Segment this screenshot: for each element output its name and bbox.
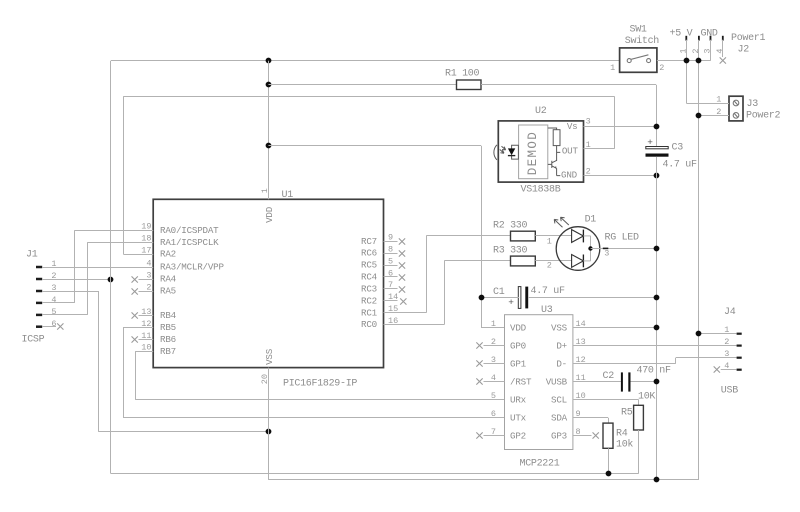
svg-text:RC2: RC2 [361, 295, 377, 306]
svg-text:SW1: SW1 [630, 25, 647, 36]
J4 pin 4 no-connect x [714, 366, 720, 372]
resistor R5 body [634, 405, 644, 430]
svg-text:VSS: VSS [551, 322, 568, 333]
svg-text:+: + [647, 137, 653, 148]
svg-text:RB5: RB5 [160, 322, 176, 333]
svg-text:4: 4 [51, 295, 56, 305]
svg-text:1: 1 [610, 63, 615, 73]
wire J1 pin3 down GND [98, 291, 100, 432]
wire GND bottom rail [269, 479, 699, 481]
svg-text:DEMOD: DEMOD [526, 131, 540, 176]
J1 pin 6 no-connect x [57, 323, 63, 329]
svg-text:GP2: GP2 [510, 430, 526, 441]
junction VDD R1 branch [266, 82, 272, 88]
U1 pin 11 no-connect x [132, 336, 138, 342]
wire ICSPCLK vertical [87, 242, 89, 315]
svg-text:R4: R4 [616, 429, 628, 440]
J2 pin 4 no-connect x [720, 57, 726, 63]
svg-text:VDD: VDD [264, 206, 275, 223]
switch SW1 body [620, 48, 657, 72]
svg-text:3: 3 [604, 249, 609, 259]
junction Vs [654, 124, 660, 130]
svg-text:2: 2 [146, 282, 151, 292]
svg-text:Power2: Power2 [746, 110, 781, 121]
wire J1 pin2 to VDD rail [42, 279, 111, 281]
J1 pin 6 tick [36, 325, 42, 328]
D1 diode 1 cathode bar [582, 230, 584, 243]
ic U3 MCP2221 body [505, 315, 573, 450]
D1 diode 2 cathode bar [582, 255, 584, 268]
wire R3 to D1 anode2 [535, 260, 571, 262]
wire to R3 [444, 260, 510, 262]
ic U2 VS1838B body [498, 121, 583, 182]
U2 demod block [519, 125, 548, 179]
svg-text:1: 1 [716, 94, 721, 104]
svg-text:4: 4 [715, 48, 725, 53]
wire GND to VSS junction [98, 431, 268, 433]
wire RA1 to ICSPCLK [87, 242, 153, 244]
U1 pin 11 stub [139, 339, 154, 341]
svg-text:3: 3 [586, 117, 591, 127]
svg-text:GND: GND [561, 170, 578, 181]
U3 pin 3 stub [484, 363, 505, 365]
svg-text:U3: U3 [541, 305, 553, 316]
junction C2 GND [654, 379, 660, 385]
junction D1 common cathode [588, 246, 592, 250]
J4 pin 4 stub [721, 369, 737, 371]
junction U2 GND [654, 173, 660, 179]
svg-text:/RST: /RST [510, 376, 532, 387]
svg-text:R5: R5 [621, 408, 633, 419]
wire RB7 vertical [135, 351, 137, 399]
wire RA2 vertical to IR OUT [123, 96, 125, 254]
wire U2 OUT pin [584, 148, 615, 150]
U1 pin 7 no-connect x [399, 286, 405, 292]
svg-text:RB4: RB4 [160, 310, 177, 321]
svg-text:URx: URx [510, 394, 527, 405]
U3 pin 4 no-connect x [476, 378, 482, 384]
wire switch to J2 [657, 60, 711, 62]
U3 pin 8 stub [573, 435, 592, 437]
svg-text:1: 1 [491, 319, 496, 329]
svg-text:PIC16F1829-IP: PIC16F1829-IP [283, 378, 357, 389]
wire VDD to R1 [269, 84, 457, 86]
U1 pin 13 stub [139, 315, 154, 317]
svg-text:GND: GND [701, 29, 718, 40]
svg-text:U2: U2 [535, 106, 547, 117]
U2 lens arc [494, 145, 497, 160]
U2 ir arrow 2 [500, 150, 504, 154]
svg-text:GP1: GP1 [510, 358, 527, 369]
svg-text:2: 2 [547, 260, 552, 270]
svg-text:4.7 uF: 4.7 uF [663, 160, 698, 171]
U3 pin 8 no-connect x [593, 432, 599, 438]
svg-text:J2: J2 [738, 45, 750, 56]
svg-text:470 nF: 470 nF [637, 365, 672, 376]
wire to R2 [426, 235, 510, 237]
U2 photodiode cathode bar [508, 155, 515, 157]
wire ICSPDAT vertical [74, 230, 76, 303]
D1 emit arrow 1 [554, 219, 562, 227]
wire GND vertical below C3 [656, 157, 658, 480]
svg-text:C1: C1 [493, 287, 505, 298]
wire RA2 stub [123, 254, 153, 256]
svg-text:6: 6 [491, 409, 496, 419]
U1 pin 14 stub [384, 300, 398, 302]
wire R1 to U2 Vs corner [481, 84, 656, 86]
wire D+ to J4 pin2 [573, 345, 737, 347]
U1 pin 7 stub [384, 288, 398, 290]
svg-text:RB6: RB6 [160, 334, 176, 345]
svg-text:3: 3 [724, 349, 729, 359]
junction VDD U3 branch [266, 143, 272, 149]
resistor R4 body [603, 423, 613, 448]
led D1 circle [556, 227, 600, 271]
J2 pin 4 wire [722, 40, 724, 57]
svg-text:VSS: VSS [264, 348, 275, 365]
junction VSS GND [266, 429, 272, 435]
junction GND bottom rail [654, 477, 660, 483]
svg-text:3: 3 [703, 48, 713, 53]
wire J4 pin1 to GND column [699, 333, 737, 335]
svg-text:2: 2 [659, 63, 664, 73]
wire SDA to R4 [573, 417, 608, 419]
U1 pin 14 no-connect x [400, 298, 406, 304]
U2 photodiode frame [512, 145, 519, 159]
wire VDD to U3 branch [269, 145, 482, 147]
svg-text:J4: J4 [724, 307, 736, 318]
wire D- jog up [675, 358, 677, 364]
D1 emit arrow 2 [561, 217, 569, 225]
J1 pin 6 stub [42, 326, 56, 328]
wire U2 GND pin [584, 175, 657, 177]
J4 pin 3 tick [737, 357, 742, 359]
resistor R3 body [511, 256, 536, 266]
svg-text:RA0/ICSPDAT: RA0/ICSPDAT [160, 225, 219, 236]
ic U1 PIC16F1829-IP body [153, 199, 383, 367]
wire U1 VSS down [268, 368, 270, 480]
wire D- horizontal [573, 363, 676, 365]
wire J1 pin5 to ICSPCLK riser [42, 314, 87, 316]
D1 diode 1 triangle [572, 230, 584, 243]
wire VDD bottom rail [111, 473, 639, 475]
wire R4 bottom lead [608, 448, 610, 473]
svg-text:RC5: RC5 [361, 260, 377, 271]
svg-text:RC7: RC7 [361, 236, 377, 247]
J2 pin 3 wire [710, 40, 712, 61]
svg-text:RA3/MCLR/VPP: RA3/MCLR/VPP [160, 262, 224, 273]
J2 pin 1 wire down [686, 40, 688, 103]
U1 pin 2 stub [139, 291, 154, 293]
wire C1 right to GND [529, 297, 656, 299]
svg-text:OUT: OUT [562, 146, 579, 157]
svg-text:R2 330: R2 330 [493, 221, 528, 232]
wire to U3 pin1 [481, 327, 505, 329]
junction VDD column top [266, 58, 272, 64]
svg-text:Vs: Vs [567, 121, 578, 132]
svg-text:1: 1 [547, 236, 552, 246]
svg-text:MCP2221: MCP2221 [520, 459, 560, 470]
SW1 lever [631, 55, 648, 60]
wire R2 to D1 anode1 [535, 235, 571, 237]
J1 pin 3 tick [36, 290, 42, 293]
svg-text:GP3: GP3 [551, 430, 567, 441]
resistor R2 body [511, 231, 536, 241]
U1 pin 13 no-connect x [132, 312, 138, 318]
U1 pin 9 no-connect x [399, 238, 405, 244]
wire R5 top lead [638, 400, 640, 406]
resistor R1 body [457, 80, 482, 90]
U2 internal resistor [553, 130, 560, 146]
wire RC1 riser [426, 236, 428, 313]
wire J1 pin3 right [42, 291, 98, 293]
svg-text:VS1838B: VS1838B [521, 184, 561, 195]
U1 pin 6 stub [384, 276, 398, 278]
SW1 contact circle 2 [647, 59, 651, 63]
U1 pin 8 stub [384, 253, 398, 255]
wire J1 pin4 to ICSPDAT riser [42, 302, 75, 304]
wire IR OUT horizontal [123, 96, 614, 98]
wire U3 VSS to GND [573, 327, 656, 329]
svg-text:5: 5 [51, 307, 56, 317]
connector J3 body [729, 96, 743, 121]
svg-text:USB: USB [721, 385, 738, 396]
svg-text:RC0: RC0 [361, 319, 377, 330]
svg-text:RC1: RC1 [361, 307, 378, 318]
SW1 contact circle 1 [627, 59, 631, 63]
svg-text:RC3: RC3 [361, 283, 377, 294]
wire URx horizontal [135, 399, 504, 401]
svg-text:U1: U1 [282, 190, 294, 201]
wire UTx horizontal [123, 417, 505, 419]
U1 pin 2 no-connect x [132, 288, 138, 294]
wire Vs vertical [656, 85, 658, 147]
junction D1 GND [654, 246, 660, 252]
svg-text:2: 2 [691, 48, 701, 53]
wire R4 top lead [608, 418, 610, 423]
svg-text:6: 6 [51, 319, 56, 329]
svg-text:4: 4 [146, 258, 151, 268]
svg-text:R1 100: R1 100 [445, 69, 480, 80]
D1 pin 3 wire to GND [591, 248, 656, 250]
wire IR OUT vertical [614, 96, 616, 148]
svg-text:RB7: RB7 [160, 346, 176, 357]
J4 pin 2 tick [737, 345, 742, 347]
U2 ir arrow 1 [502, 146, 506, 150]
wire SCL to R5 [573, 399, 639, 401]
svg-text:3: 3 [146, 270, 151, 280]
svg-text:GP0: GP0 [510, 340, 526, 351]
U1 pin 3 stub [139, 279, 154, 281]
U1 pin 5 no-connect x [399, 262, 405, 268]
svg-text:RA2: RA2 [160, 249, 176, 260]
J2 pin 2 wire down [698, 40, 700, 480]
U2 internal out lead [557, 146, 561, 161]
J2 pin 3 tick [710, 36, 712, 41]
J2 pin 4 tick [722, 36, 724, 41]
U1 pin 6 no-connect x [399, 274, 405, 280]
U2 internal transistor [548, 160, 561, 175]
wire C1 left [481, 297, 519, 299]
U1 pin 5 stub [384, 265, 398, 267]
svg-text:10K: 10K [638, 391, 655, 402]
junction J4 pin1 [696, 331, 702, 337]
junction J2 pin2 [696, 58, 702, 64]
J1 pin 4 tick [36, 302, 42, 305]
svg-text:+: + [508, 297, 514, 308]
U3 pin 7 no-connect x [476, 432, 482, 438]
wire +5V to J3 pin1 [686, 103, 729, 105]
svg-text:Power1: Power1 [731, 33, 766, 44]
svg-text:2: 2 [724, 337, 729, 347]
svg-text:J3: J3 [747, 99, 759, 110]
wire U2 Vs to C3 rail [584, 126, 657, 128]
wire R5 bottom lead [638, 430, 640, 474]
svg-text:+5 V: +5 V [670, 29, 693, 40]
wire VUSB to C2 [573, 381, 621, 383]
svg-text:C2: C2 [603, 371, 615, 382]
svg-text:5: 5 [491, 391, 496, 401]
J1 pin 1 tick [36, 266, 42, 269]
U3 pin 3 no-connect x [476, 360, 482, 366]
wire RB7 stub [135, 351, 153, 353]
wire RA0 to ICSPDAT [75, 230, 154, 232]
svg-text:RC6: RC6 [361, 248, 377, 259]
wire RC1 stub [384, 312, 427, 314]
U3 pin 2 stub [484, 345, 505, 347]
U2 photodiode triangle [508, 148, 515, 155]
capacitor C3 plus plate [646, 147, 668, 149]
svg-text:RA1/ICSPCLK: RA1/ICSPCLK [160, 237, 219, 248]
D1 cathode link [590, 236, 592, 261]
junction C1 VDD [479, 295, 485, 301]
capacitor C3 minus plate [646, 154, 669, 157]
D1 diode 2 triangle [572, 255, 584, 268]
svg-text:UTx: UTx [510, 412, 527, 423]
junction J3 pin2 GND [696, 113, 702, 119]
U1 pin 3 no-connect x [132, 276, 138, 282]
junction VSS GND column [654, 325, 660, 331]
svg-text:SDA: SDA [551, 413, 568, 424]
U3 pin 7 stub [484, 435, 505, 437]
J2 pin 1 tick [685, 36, 687, 41]
svg-text:VDD: VDD [510, 322, 527, 333]
J1 pin 2 tick [36, 278, 42, 281]
svg-text:D+: D+ [556, 340, 567, 351]
svg-text:17: 17 [141, 245, 151, 255]
J3 screw 2 [733, 113, 739, 119]
svg-text:R3 330: R3 330 [493, 245, 528, 256]
J4 pin 4 tick [737, 369, 742, 371]
svg-text:SCL: SCL [551, 394, 567, 405]
svg-text:Switch: Switch [625, 35, 660, 47]
wire J1 pin1 to U1 RA3 [42, 267, 153, 269]
wire D- to J4 pin3 [676, 357, 737, 359]
junction C1 GND [654, 295, 660, 301]
capacitor C1 minus plate [525, 287, 528, 309]
U2 internal resistor top lead [548, 128, 557, 130]
D1 pin 3 tick [603, 248, 609, 250]
wire C2 to GND [631, 381, 657, 383]
wire U3 VDD vertical [481, 146, 483, 328]
junction R4 VDD rail [606, 471, 612, 477]
svg-text:D-: D- [556, 358, 567, 369]
wire RB5 vertical [123, 328, 125, 418]
wire VDD left vertical [110, 61, 112, 474]
svg-text:10k: 10k [616, 439, 633, 451]
wire RB5 stub [123, 327, 153, 329]
U3 pin 4 stub [484, 381, 505, 383]
J3 screw 1 [733, 100, 739, 106]
junction J2 pin1 [684, 58, 690, 64]
svg-text:RA4: RA4 [160, 274, 177, 285]
capacitor C1 plus plate [518, 287, 521, 309]
U3 pin 2 no-connect x [476, 342, 482, 348]
svg-text:ICSP: ICSP [22, 334, 45, 345]
capacitor C2 plate 1 [621, 372, 623, 391]
svg-text:2: 2 [716, 107, 721, 117]
U1 pin 9 stub [384, 241, 398, 243]
wire RC0 riser [444, 261, 446, 325]
J1 pin 5 tick [36, 314, 42, 317]
svg-text:D1: D1 [585, 215, 597, 226]
svg-text:VUSB: VUSB [546, 376, 568, 387]
U1 pin 8 no-connect x [399, 250, 405, 256]
junction J1 pin2 VDD rail [108, 277, 114, 283]
svg-text:J1: J1 [26, 250, 38, 261]
wire VDD top horizontal to switch [111, 60, 620, 62]
wire RC0 stub [384, 324, 445, 326]
J4 pin 1 tick [737, 333, 742, 335]
svg-text:C3: C3 [672, 142, 684, 153]
capacitor C2 plate 2 [628, 372, 630, 391]
svg-text:4.7 uF: 4.7 uF [531, 286, 566, 297]
svg-text:RC4: RC4 [361, 272, 378, 283]
svg-text:RA5: RA5 [160, 286, 176, 297]
svg-text:RG LED: RG LED [605, 233, 640, 244]
svg-text:5: 5 [388, 256, 393, 266]
wire GND to J3 pin2 [699, 115, 729, 117]
wire VDD column to U1 [268, 61, 270, 200]
J2 pin 2 tick [698, 36, 700, 41]
